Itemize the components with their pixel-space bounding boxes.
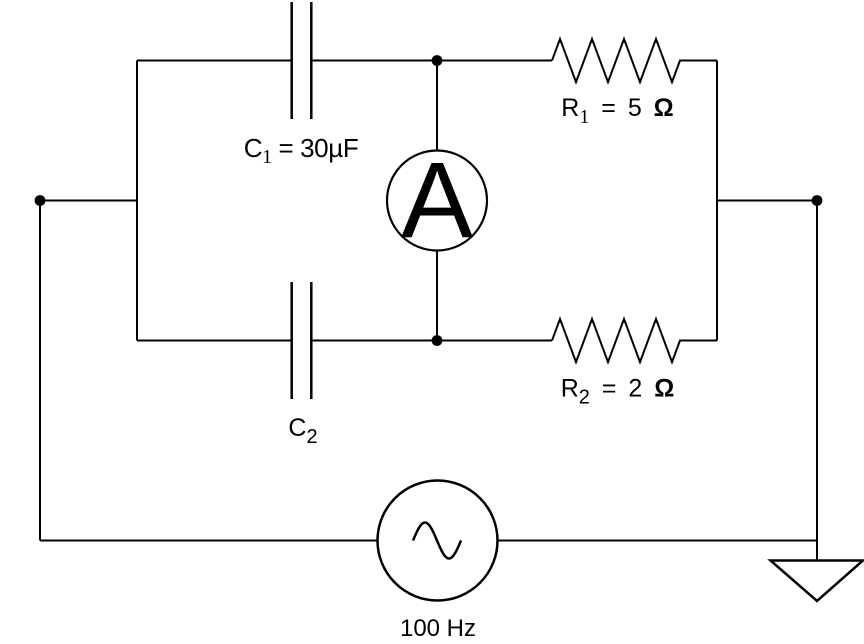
AC source V1 sine wave bbox=[413, 523, 461, 559]
wire bottom inner rail left segment bbox=[137, 340, 291, 342]
wire left node stub bbox=[40, 200, 137, 202]
capacitor C1 bbox=[292, 2, 312, 119]
node junction bottom bbox=[432, 335, 443, 346]
wire left outer vertical bbox=[39, 201, 41, 541]
resistor R2 bbox=[552, 319, 717, 362]
ammeter U1 circle bbox=[387, 151, 487, 251]
AC source V1 circle bbox=[378, 481, 498, 601]
wire right outer vertical bbox=[816, 201, 818, 561]
node junction right bbox=[812, 195, 823, 206]
ground symbol bbox=[771, 561, 864, 602]
capacitor C2 bbox=[292, 282, 312, 399]
svg-text:C1 = 30µF: C1 = 30µF bbox=[244, 133, 359, 168]
svg-text:100 Hz: 100 Hz bbox=[400, 615, 476, 642]
resistor R1 bbox=[552, 39, 717, 82]
wire right inner vertical bbox=[716, 61, 718, 341]
wire left inner vertical bbox=[136, 61, 138, 341]
node junction left bbox=[35, 195, 46, 206]
wire bottom rail bbox=[40, 540, 817, 542]
wire right mid stub bbox=[717, 200, 817, 202]
wire bottom inner rail mid segment bbox=[312, 340, 552, 342]
node junction top bbox=[432, 55, 443, 66]
wire top rail left segment bbox=[137, 60, 291, 62]
svg-text:A: A bbox=[401, 139, 473, 260]
wire ammeter branch vertical bbox=[436, 61, 438, 341]
wire top rail mid segment bbox=[312, 60, 552, 62]
